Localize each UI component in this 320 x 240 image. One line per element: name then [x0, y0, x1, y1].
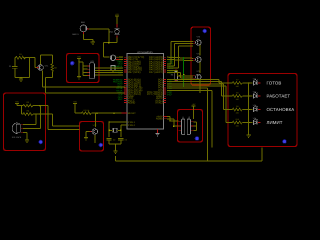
junction node A [108, 42, 109, 43]
svg-text:R10: R10 [236, 118, 239, 121]
IC U1 ATmega8535 body [127, 54, 164, 130]
wire vertical long [47, 106, 49, 130]
wire [79, 61, 83, 63]
wire emitter down [94, 135, 96, 143]
wire [118, 129, 121, 131]
wire up to box6 [261, 148, 263, 161]
wire down [34, 58, 36, 68]
pin stub ISP 2 [87, 68, 89, 70]
transistor VT1 [38, 65, 44, 71]
wire to ground [85, 132, 87, 138]
wire vertical long [51, 114, 53, 126]
wire vertical [39, 106, 41, 129]
ground (microphone) [91, 42, 95, 44]
svg-text:+5V: +5V [73, 100, 77, 103]
wire [230, 122, 233, 124]
wire [167, 72, 180, 74]
wire down [120, 125, 122, 137]
connector J2 [187, 119, 190, 135]
wire to VT3 [171, 40, 193, 42]
wire into box5 [174, 125, 179, 127]
capacitor C2 [107, 139, 112, 141]
wire vertical [82, 62, 84, 76]
wire up [178, 46, 180, 68]
capacitor C1 [12, 64, 17, 73]
junction [96, 112, 97, 113]
connector J1 [181, 119, 184, 135]
wire mic gnd down [83, 34, 85, 40]
power +5V (reset) [73, 100, 77, 103]
LED VD1 [254, 79, 258, 85]
svg-text:330: 330 [236, 85, 239, 88]
svg-text:ЛИМИТ: ЛИМИТ [267, 120, 283, 125]
microphone BM1 [80, 25, 87, 32]
ground (ISP) [77, 77, 81, 79]
wire into box6 [224, 109, 230, 111]
svg-text:РАБОТАЕТ: РАБОТАЕТ [267, 94, 291, 99]
wire [167, 116, 170, 118]
wire from IC [167, 85, 226, 87]
pin stub VT1 base [37, 67, 39, 69]
highlight box 5 (jumpers) [178, 110, 203, 143]
wire [120, 140, 122, 144]
svg-text:330: 330 [236, 112, 239, 115]
wire [74, 104, 76, 114]
LED VD3 [254, 106, 258, 112]
svg-text:ATmega8535: ATmega8535 [137, 51, 153, 54]
junction [113, 112, 114, 113]
marker (box2) [70, 61, 74, 65]
highlight box 4 (reset transistor) [80, 122, 104, 152]
svg-text:C3: C3 [125, 138, 127, 141]
wire down to C1 [14, 58, 16, 64]
wire emitter down [41, 71, 43, 87]
wire bus to IC (PD) [45, 92, 124, 94]
pin stub [193, 60, 195, 62]
svg-text:J2: J2 [188, 116, 190, 119]
wire to VT4 [167, 59, 193, 60]
transistor VT3 [196, 40, 202, 46]
ground (jack) [25, 140, 29, 142]
wire [83, 71, 88, 73]
wire down to gnd [78, 62, 80, 77]
wire [167, 69, 178, 71]
wire vertical long [211, 90, 213, 147]
junction [20, 77, 21, 78]
pin stub buzzer top [116, 24, 118, 28]
wire to VT5 [180, 77, 193, 79]
wire [242, 122, 252, 124]
transistor VT4 [196, 57, 202, 63]
wire [194, 121, 197, 123]
wire mic to node [89, 28, 109, 30]
wire staircase down [225, 86, 227, 123]
pin stub J1 [179, 121, 182, 123]
pin stub jack [21, 123, 23, 125]
pin stub mic gnd [83, 32, 85, 34]
svg-text:+5V: +5V [115, 13, 119, 16]
pin stub base [193, 75, 195, 77]
wire ISP to IC [95, 72, 123, 74]
wire [230, 82, 233, 84]
wire [108, 140, 110, 144]
svg-text:+5V: +5V [15, 100, 19, 103]
junction [248, 122, 249, 123]
pin stub mic out [87, 28, 89, 30]
svg-text:XTAL2: XTAL2 [128, 124, 136, 127]
wire VT4-VT5 link [199, 62, 201, 73]
wire down [177, 70, 179, 75]
svg-text:+5V: +5V [77, 55, 81, 58]
wire [242, 82, 252, 84]
ground (IC GND) [155, 134, 159, 136]
wire [230, 95, 233, 97]
wire staircase down [223, 84, 225, 110]
wire down [108, 29, 110, 43]
wire [167, 65, 175, 67]
svg-text:AGND: AGND [128, 101, 136, 104]
resistor R6 (vertical, left of box1) [175, 70, 177, 72]
junction [248, 109, 249, 110]
pin stub emitter [199, 45, 201, 47]
wire from IC [167, 83, 224, 85]
svg-text:PA7 (ADC7): PA7 (ADC7) [149, 71, 163, 74]
pin stub amp out1 [116, 56, 119, 58]
resistor R10 [232, 121, 242, 124]
junction [40, 113, 41, 114]
wire [14, 73, 16, 78]
wire [83, 65, 88, 67]
wire into box6 [219, 82, 230, 84]
buzzer ZQ1 [115, 29, 120, 35]
pin stub amp out2 [116, 58, 119, 60]
wire [194, 129, 197, 131]
pin stub ISP 4 [87, 75, 89, 77]
highlight box 6 (indicator LEDs) [228, 74, 297, 147]
IC U1 XTAL pins [123, 121, 127, 123]
highlight box 3 (input jack) [4, 93, 46, 151]
pin stub ISP 3 [87, 71, 89, 73]
ground (box4) [84, 138, 88, 140]
resistor R2 [51, 64, 53, 72]
wire [173, 119, 175, 126]
wire XTAL2 [121, 124, 127, 126]
svg-text:ОСТАНОВКА: ОСТАНОВКА [267, 107, 295, 112]
junction [183, 74, 184, 75]
wire [86, 131, 88, 133]
transistor VT2 [92, 129, 98, 135]
wire [21, 106, 23, 114]
ground (crystal) [113, 151, 117, 153]
svg-text:330: 330 [236, 125, 239, 128]
svg-text:AGND: AGND [156, 118, 163, 121]
LED VD2 [254, 92, 258, 98]
wire down [26, 132, 28, 140]
junction [180, 75, 181, 76]
svg-text:R6: R6 [171, 74, 173, 77]
resistor R7 [232, 82, 242, 85]
pin stub J1 [179, 125, 182, 127]
wire [230, 109, 233, 111]
wire [26, 57, 30, 59]
wire [242, 109, 252, 111]
resistor R4 [23, 113, 33, 116]
wire [167, 118, 174, 120]
junction [108, 130, 109, 131]
wire (green net) [183, 57, 185, 87]
wire staircase down [221, 82, 223, 96]
wire down to amp [103, 43, 105, 57]
junction [40, 105, 41, 106]
capacitor C3 [118, 139, 123, 141]
wire [14, 57, 17, 59]
wire [119, 56, 123, 58]
wire bus to IC (PD) [42, 86, 125, 88]
wire to VT3 [175, 43, 194, 45]
power +5V (buzzer) [115, 13, 119, 16]
wire down to VT2 [95, 113, 97, 127]
wire mic gnd right [84, 39, 93, 41]
highlight box 1 (output transistors) [191, 27, 211, 85]
wire into box6 [226, 122, 229, 124]
LED VD4 [254, 119, 258, 125]
wire [167, 63, 171, 65]
wire [16, 104, 18, 106]
wire vertical long [206, 88, 208, 161]
small part below amp [111, 66, 115, 71]
junction [78, 61, 79, 62]
wire [115, 156, 117, 161]
wire bottom bus [116, 160, 263, 162]
wire up [35, 114, 37, 124]
svg-text:330: 330 [236, 98, 239, 101]
svg-text:ГОТОВ: ГОТОВ [267, 81, 282, 86]
junction [248, 82, 249, 83]
pin stub base [193, 40, 195, 42]
wire ISP to IC [95, 67, 123, 69]
resistor R1 [16, 56, 26, 59]
wire [169, 117, 171, 121]
wire to ground [115, 144, 117, 151]
pin stub LED [258, 95, 261, 97]
wire [88, 131, 90, 133]
wire collector up [40, 55, 42, 65]
wire R2 bottom [51, 72, 53, 78]
wire into box6 [222, 95, 230, 97]
wire mic gnd down2 [92, 40, 94, 42]
marker (box6) [283, 140, 287, 144]
wire exit box3 lower [40, 113, 52, 115]
marker (box4) [99, 143, 103, 147]
resistor R8 [232, 95, 242, 98]
junction [169, 120, 170, 121]
wire to VT3 [179, 45, 194, 47]
pin stub J2 [191, 129, 194, 131]
wire to VT5 [178, 75, 194, 77]
power +5V (ISP) [77, 55, 81, 58]
wire rail [109, 143, 121, 145]
wire from IC [167, 78, 219, 80]
wire [23, 123, 36, 125]
wire [78, 59, 80, 63]
pin stub J2 [191, 125, 194, 127]
wire [83, 75, 88, 77]
svg-text:RESET: RESET [128, 112, 137, 115]
wire [167, 87, 207, 89]
svg-text:XTAL2: XTAL2 [155, 101, 163, 104]
wire VT3-VT4 link [199, 45, 201, 55]
svg-text:PB7 (SCK): PB7 (SCK) [128, 71, 141, 74]
junction [120, 130, 121, 131]
pin stub VT2 base [90, 131, 92, 133]
wire power to buzzer [116, 16, 118, 24]
wire into Q [35, 67, 37, 69]
ground (cluster A) [19, 79, 23, 81]
wire ISP to IC [95, 69, 123, 71]
pin stub base [193, 57, 195, 59]
svg-text:J1: J1 [182, 116, 184, 119]
wire into box5 [193, 106, 195, 119]
crystal ZQ2 [112, 128, 117, 133]
pin stub LED [258, 122, 261, 124]
svg-text:XS1 JACK: XS1 JACK [12, 136, 22, 139]
power +5V (jack) [15, 100, 19, 103]
pin stub jack [21, 127, 23, 129]
wire into box5 [170, 120, 179, 122]
pin stub ISP 1 [87, 65, 89, 67]
resistor R9 [232, 108, 242, 111]
svg-text:MKE-3: MKE-3 [72, 33, 79, 36]
wire down to R2 top [51, 55, 53, 64]
wire node A horizontal [104, 42, 118, 44]
wire to box4 [52, 125, 79, 127]
wire to box4 [48, 129, 80, 131]
pin stub [193, 43, 195, 45]
wire buzzer down [116, 38, 118, 43]
wire [75, 112, 82, 114]
wire [45, 77, 52, 79]
wire to Q base [25, 57, 35, 59]
jack connector XS1 [12, 123, 20, 134]
wire common cathode [248, 83, 250, 135]
transistor VT5 [196, 74, 202, 80]
junction [24, 57, 25, 58]
wire [109, 129, 112, 131]
wire [242, 95, 252, 97]
pin stub LED [258, 109, 261, 111]
wire to ground [20, 78, 22, 80]
marker (box3) [39, 140, 43, 144]
wire up [170, 41, 172, 64]
wire up [174, 44, 176, 66]
IC U1 bottom-right aux pins [164, 116, 168, 118]
wire down [108, 122, 110, 137]
wire to RESET pin [91, 112, 121, 114]
marker (box1) [203, 29, 207, 33]
ground (LEDs) [246, 135, 250, 137]
highlight box 2 (ISP connector) [67, 54, 100, 83]
svg-text:R5 10k: R5 10k [84, 109, 90, 112]
wire [167, 89, 212, 91]
wire [33, 113, 40, 115]
junction [108, 121, 109, 122]
wire [83, 68, 88, 70]
wire down long [44, 78, 46, 94]
IC U1 left pin stubs [124, 56, 127, 58]
IC U1 right pin stubs [164, 56, 167, 58]
wire XTAL1 [109, 121, 127, 123]
wire [119, 58, 123, 60]
wire [112, 71, 114, 73]
wire staircase down [218, 79, 220, 83]
power +5V (jumpers) [192, 103, 196, 106]
wire [33, 105, 40, 107]
wire [22, 113, 24, 115]
resistor R3 [23, 104, 33, 107]
wire [23, 127, 40, 129]
wire bottom [15, 77, 30, 79]
wire VT5 down [199, 80, 201, 93]
wire ISP to IC [95, 74, 123, 76]
pin stub [193, 77, 195, 79]
pin stub J1 [179, 129, 182, 131]
pin stub jack [21, 131, 23, 133]
pin stub J2 [191, 121, 194, 123]
pin stub emitter [199, 80, 201, 82]
junction [173, 125, 174, 126]
wire from IC [167, 81, 222, 83]
wire over to R2 [41, 54, 53, 56]
pin stub emitter [199, 62, 201, 64]
wire [167, 67, 179, 69]
wire to pin [113, 72, 123, 74]
wire down [179, 73, 181, 79]
resistor R5 [81, 112, 91, 115]
wire [17, 105, 23, 107]
junction [248, 95, 249, 96]
wire loop down [29, 58, 31, 78]
IC U1 RESET pin [122, 112, 127, 114]
wire exit box3 upper [40, 105, 48, 107]
pin stub buzzer bottom [116, 35, 118, 37]
amplifier stage Q near IC [110, 55, 115, 60]
pin stub LED [258, 82, 261, 84]
wire to VT4 [167, 57, 193, 58]
svg-text:C2: C2 [113, 138, 115, 141]
wire vertical [196, 122, 198, 131]
wire [23, 131, 27, 133]
IC U1 GND pin to ground [157, 129, 159, 133]
connector XP1 (ISP) [90, 63, 95, 79]
svg-text:+5V: +5V [192, 103, 196, 106]
wire into amp [104, 56, 110, 58]
wire [194, 125, 197, 127]
marker (box5) [195, 137, 199, 141]
